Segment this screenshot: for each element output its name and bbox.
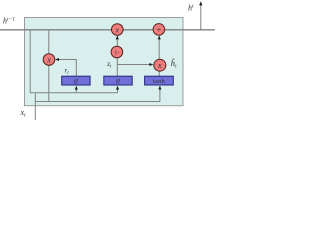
wire: z(t) branch right into product with candidate <box>117 64 152 66</box>
svg-text:xt: xt <box>20 108 27 119</box>
wire: z(t) column from sigma2 up through 1- into top product <box>116 37 118 77</box>
wire: arrow terminal of line A up into sigma2 <box>117 88 119 93</box>
multiplier circle (1-z)*h on hidden line <box>112 24 124 36</box>
reset gate sigma1 box <box>62 76 90 85</box>
wire: h(t-1) drop at x=30.2 down to gate feed line <box>30 30 117 93</box>
wire: h(t-1) drop at x=48.7 through reset product down to line C <box>48 30 50 102</box>
svg-text:x: x <box>46 55 51 64</box>
svg-text:x: x <box>115 25 120 34</box>
wire: tanh output up into product circle <box>158 72 160 77</box>
candidate product circle <box>154 59 166 71</box>
one-minus circle <box>111 46 123 58</box>
svg-text:tanh: tanh <box>153 78 166 85</box>
svg-text:+: + <box>157 24 162 34</box>
wire: output branch up to h(t) arrow <box>200 4 202 30</box>
wire: hidden state line h(t-1) -> h(t), y=29.5 <box>0 29 215 31</box>
svg-text:ht: ht <box>188 4 194 13</box>
adder circle <box>153 24 165 36</box>
candidate tanh box <box>145 76 174 85</box>
svg-text:1-: 1- <box>114 50 119 56</box>
update gate sigma2 box <box>104 76 132 85</box>
svg-text:ht−1: ht−1 <box>3 17 15 26</box>
wire: x(t) input vertical <box>34 93 36 120</box>
wire: r(t) from sigma1 up and left into product circle <box>57 60 77 77</box>
wire: arrow from feed line A up into sigma1 <box>75 88 77 93</box>
reset product circle <box>43 54 55 66</box>
wire: product up into plus circle <box>158 37 160 60</box>
wire: line C carrying x(t) and r*h to tanh <box>35 87 160 102</box>
GRU cell background box <box>25 18 184 106</box>
svg-text:x: x <box>157 61 162 70</box>
